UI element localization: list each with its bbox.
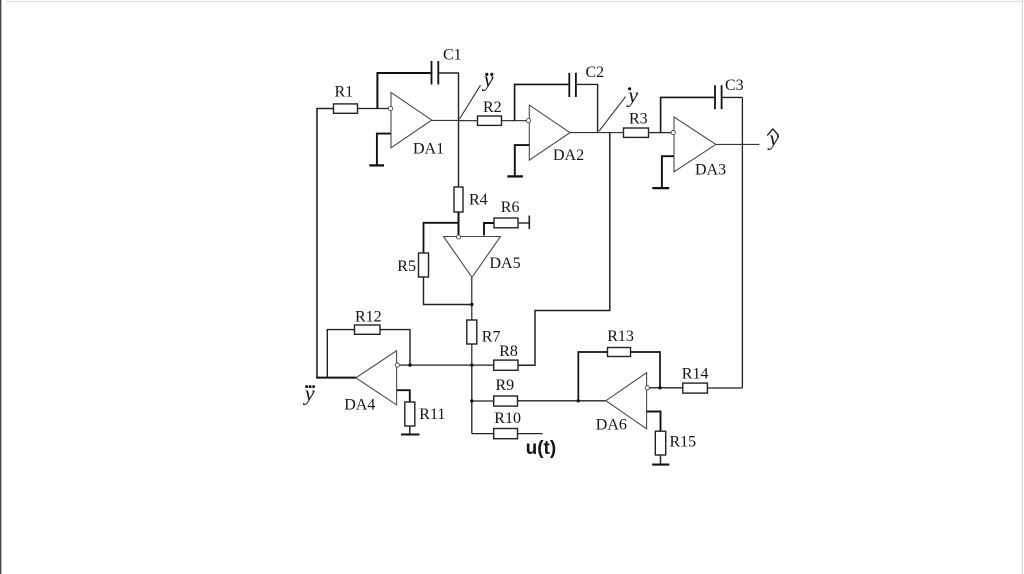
svg-text:u(t): u(t)	[526, 438, 557, 459]
wire: DA5 feedback left (thick)	[424, 223, 459, 253]
capacitor C2	[568, 73, 570, 97]
svg-text:R7: R7	[482, 328, 501, 345]
resistor R14	[683, 383, 708, 393]
svg-text:y: y	[626, 83, 638, 108]
resistor R4	[454, 187, 463, 212]
svg-text:DA4: DA4	[344, 396, 375, 413]
resistor R6	[494, 218, 518, 228]
node A (ddot y) pointer line	[460, 85, 481, 119]
wire: R11 to ground	[409, 426, 411, 434]
svg-text:R4: R4	[469, 192, 488, 209]
wire: C3 right plate to right vertical	[723, 96, 743, 98]
junction dot R13/input	[658, 386, 661, 389]
ground of R15	[652, 464, 669, 466]
junction dot R12/input	[408, 363, 411, 366]
wire: C1 right plate to output node	[439, 73, 459, 121]
svg-text:DA2: DA2	[553, 147, 584, 164]
wire: DA3 output to hat-y	[716, 143, 760, 145]
wire: DA2 output to node B	[570, 132, 624, 134]
svg-text:DA3: DA3	[695, 162, 726, 179]
svg-text:R8: R8	[499, 343, 518, 360]
wire: DA4 inverting input to R8	[399, 364, 494, 366]
ground of DA1	[377, 134, 391, 165]
wire: node A down to R4	[458, 121, 460, 188]
svg-text:DA1: DA1	[413, 141, 444, 158]
input circle DA1	[388, 106, 392, 110]
frame left edge	[0, 0, 2, 574]
wire: node A to R2	[459, 120, 478, 122]
svg-text:y: y	[303, 381, 315, 406]
resistor R5	[419, 253, 429, 277]
svg-text:R13: R13	[607, 328, 634, 345]
ground of DA3	[662, 156, 674, 187]
resistor R12	[355, 325, 381, 334]
op-amp DA6 (points left)	[606, 373, 647, 429]
wire: R2 to DA2 inverting input	[502, 120, 527, 122]
wire: R1 to DA1 inverting input	[358, 108, 389, 110]
wire: right vertical (DA3 fb + output run down to R14)	[741, 97, 743, 388]
ground of DA2	[515, 145, 530, 176]
op-amp DA3	[674, 117, 716, 172]
svg-text:R11: R11	[419, 406, 445, 423]
svg-text:C3: C3	[725, 77, 744, 94]
wire: middle vertical R7 line down to R10	[471, 365, 473, 434]
terminal tick at R6 right	[528, 216, 530, 230]
svg-text:R3: R3	[629, 110, 648, 127]
wire: DA5 second input from R6 (thick)	[484, 223, 494, 236]
svg-text:DA6: DA6	[596, 417, 627, 434]
resistor R9	[494, 396, 518, 406]
junction dot DA5 output / R5 loop	[470, 303, 473, 306]
svg-text:R9: R9	[496, 377, 515, 394]
resistor R1	[334, 104, 358, 113]
wire: DA5 output down to R7	[471, 277, 473, 320]
junction dot R7/vertical	[470, 363, 473, 366]
resistor R8	[494, 360, 518, 370]
wire: R14 to right vertical	[707, 387, 742, 389]
svg-text:R10: R10	[494, 410, 521, 427]
wire: DA4 noninv input to R11 (thick)	[397, 390, 410, 402]
wire: R5 bottom loop to DA5 output	[424, 277, 472, 305]
resistor R15	[655, 431, 665, 455]
input circle DA2	[526, 119, 530, 123]
wire: left main vertical (DA4 output to R1)	[317, 109, 334, 378]
wire: R13 right down to DA6 input line	[631, 352, 661, 388]
wire: DA1 output to node A	[432, 119, 459, 121]
wire: DA6 noninv input to R15 (thick)	[647, 412, 661, 432]
wire: DA6 inverting input to R14	[649, 387, 683, 389]
wire: C2 right plate to DA2 output node	[577, 84, 598, 132]
svg-text:R5: R5	[397, 258, 416, 275]
wire: to R10	[472, 433, 494, 435]
input circle DA4	[395, 363, 399, 367]
junction dot R13/output	[577, 399, 580, 402]
frame top edge	[6, 1, 1024, 3]
wire: R15 to ground	[660, 455, 662, 464]
op-amp DA1	[391, 92, 432, 147]
svg-text:y: y	[482, 67, 494, 92]
wire: R9 to DA6 output (apex)	[518, 400, 606, 402]
junction dot R9 row	[470, 399, 473, 402]
svg-text:R14: R14	[682, 365, 709, 382]
wire: R13 feedback loop (thick)	[578, 352, 607, 401]
op-amp DA2	[529, 105, 570, 160]
svg-text:R1: R1	[335, 84, 354, 101]
wire: R7 to DA4 input line	[471, 344, 473, 365]
frame right edge	[1021, 0, 1023, 574]
node B (dot y) pointer line	[599, 97, 626, 132]
resistor R11	[405, 402, 415, 426]
resistor R10	[494, 429, 518, 439]
svg-text:R12: R12	[355, 309, 382, 326]
resistor R2	[478, 116, 502, 125]
svg-text:DA5: DA5	[490, 255, 521, 272]
op-amp DA5 (points down)	[444, 237, 501, 278]
op-amp DA4 (points left)	[356, 351, 397, 405]
wire: DA1 feedback up-left (thick)	[377, 73, 430, 109]
wire: R10 to u(t) input	[518, 433, 543, 435]
svg-text:R15: R15	[670, 434, 697, 451]
resistor R7	[467, 320, 477, 344]
wire: to R9	[472, 400, 494, 402]
svg-text:R6: R6	[501, 199, 520, 216]
wire: node B down-left to R8 (long branch)	[518, 133, 610, 366]
capacitor C1	[431, 61, 433, 85]
wire: R6 to terminal	[518, 222, 529, 224]
svg-text:C2: C2	[586, 64, 605, 81]
svg-text:R2: R2	[483, 99, 502, 116]
input circle DA6	[645, 386, 649, 390]
wire: R12 feedback loop	[327, 330, 354, 378]
wire: R3 to DA3 inverting input	[649, 132, 672, 134]
wire: DA2 feedback up (thick)	[515, 84, 569, 120]
svg-text:C1: C1	[443, 47, 462, 64]
wire: DA4 output (thick)	[316, 377, 356, 379]
input circle DA5	[456, 235, 460, 239]
wire: R4 to DA5 input (thick)	[458, 212, 460, 235]
input circle DA3	[671, 131, 675, 135]
resistor R13	[608, 348, 631, 357]
capacitor C3	[714, 85, 716, 109]
resistor R3	[624, 128, 649, 137]
wire: DA3 feedback up (thick)	[661, 97, 715, 132]
wire: R12 right to DA4 input line	[380, 330, 410, 366]
ground of R11	[401, 433, 420, 435]
